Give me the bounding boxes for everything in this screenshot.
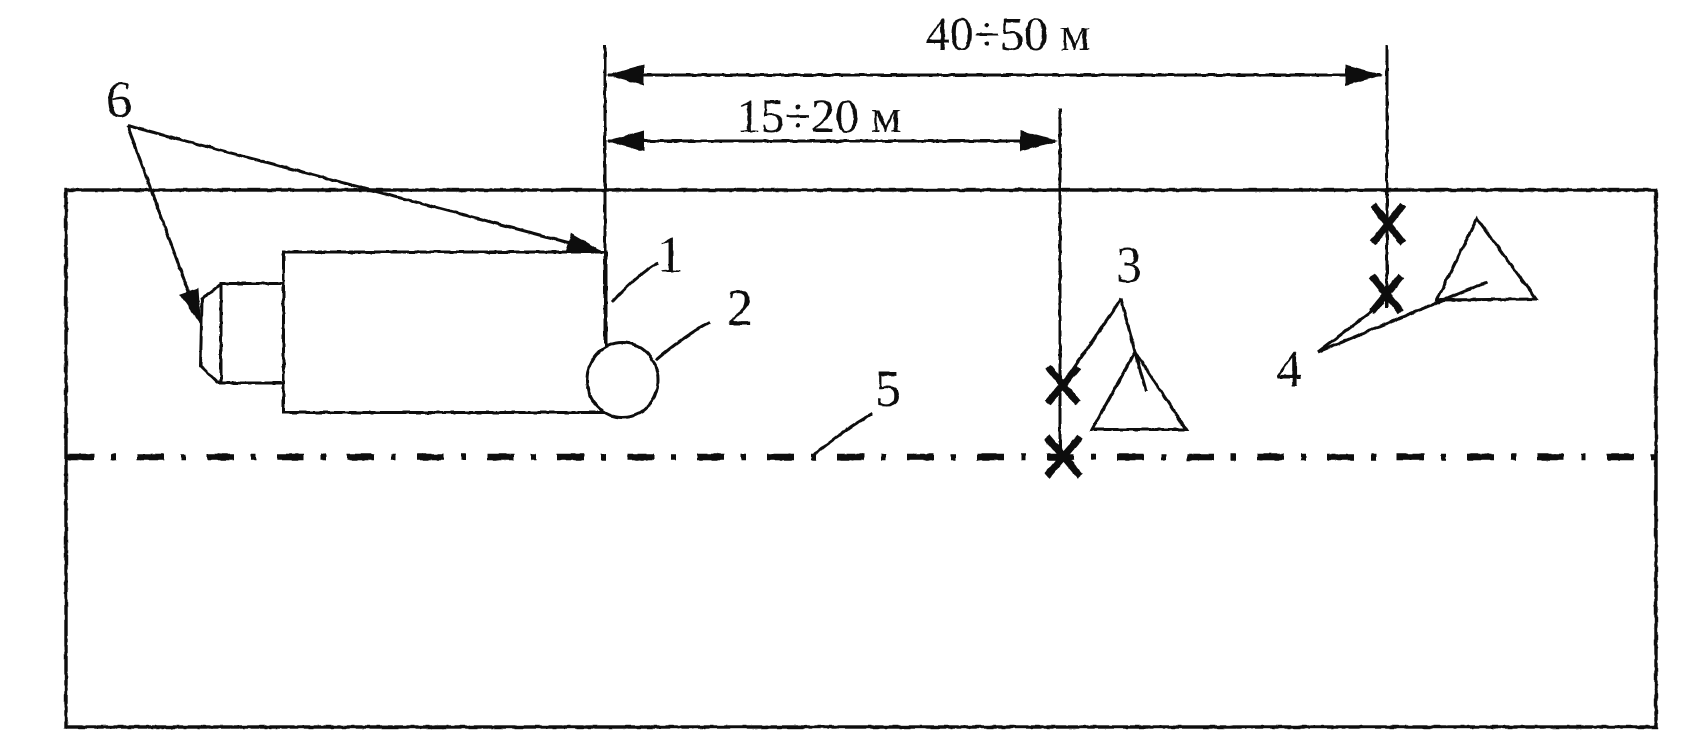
dimension line 15÷20 m xyxy=(608,140,1055,143)
arrowhead left of 15÷20 xyxy=(606,131,644,152)
dimension line 40÷50 m xyxy=(608,74,1381,77)
cross mark lower on post 4 xyxy=(1372,276,1401,312)
cross mark upper on post 4 xyxy=(1373,205,1403,243)
svg-text:6: 6 xyxy=(106,72,132,129)
leader of label 2 xyxy=(656,322,710,360)
leader of label 1 xyxy=(612,263,658,302)
tent 4 triangle xyxy=(1437,219,1536,301)
vehicle body rectangle xyxy=(284,252,607,413)
svg-text:2: 2 xyxy=(727,280,753,337)
arrowhead right of 40÷50 xyxy=(1345,65,1383,86)
extension line middle (post 3) xyxy=(1059,108,1062,452)
svg-text:5: 5 xyxy=(875,361,901,418)
svg-text:40÷50 м: 40÷50 м xyxy=(926,8,1091,61)
cross mark at axis on post 3 line xyxy=(1047,437,1080,476)
tent 3 pole xyxy=(1121,299,1146,391)
arrowhead of leader 6 at nose xyxy=(180,288,201,325)
leader from 6 to nose cone xyxy=(128,126,197,313)
field boundary rectangle xyxy=(66,190,1656,727)
vehicle nose cone 6 xyxy=(201,284,222,382)
svg-text:3: 3 xyxy=(1116,237,1142,294)
axis dash-dot line 5 xyxy=(67,454,1656,461)
arrowhead right of 15÷20 xyxy=(1020,131,1058,152)
wheel circle 2 xyxy=(587,343,658,418)
extension line right (post 4) xyxy=(1386,45,1389,308)
vehicle cab rectangle xyxy=(221,284,284,384)
leader of label 4 to tent xyxy=(1318,282,1487,352)
arrowhead left of 40÷50 xyxy=(606,65,644,86)
tent 3 triangle xyxy=(1092,352,1186,430)
leader from 6 to vehicle rear corner xyxy=(128,126,571,244)
svg-text:4: 4 xyxy=(1276,341,1302,398)
svg-text:15÷20 м: 15÷20 м xyxy=(737,90,902,143)
arrowhead of leader 6 at rear corner xyxy=(566,233,603,252)
extension line left (at vehicle rear) xyxy=(604,45,607,343)
cross mark on post 3 xyxy=(1048,367,1078,403)
leader of label 3 to cross xyxy=(1063,299,1121,384)
svg-text:1: 1 xyxy=(657,227,683,284)
leader of label 4 to lower cross xyxy=(1318,302,1384,352)
leader of label 5 to axis xyxy=(814,414,872,455)
